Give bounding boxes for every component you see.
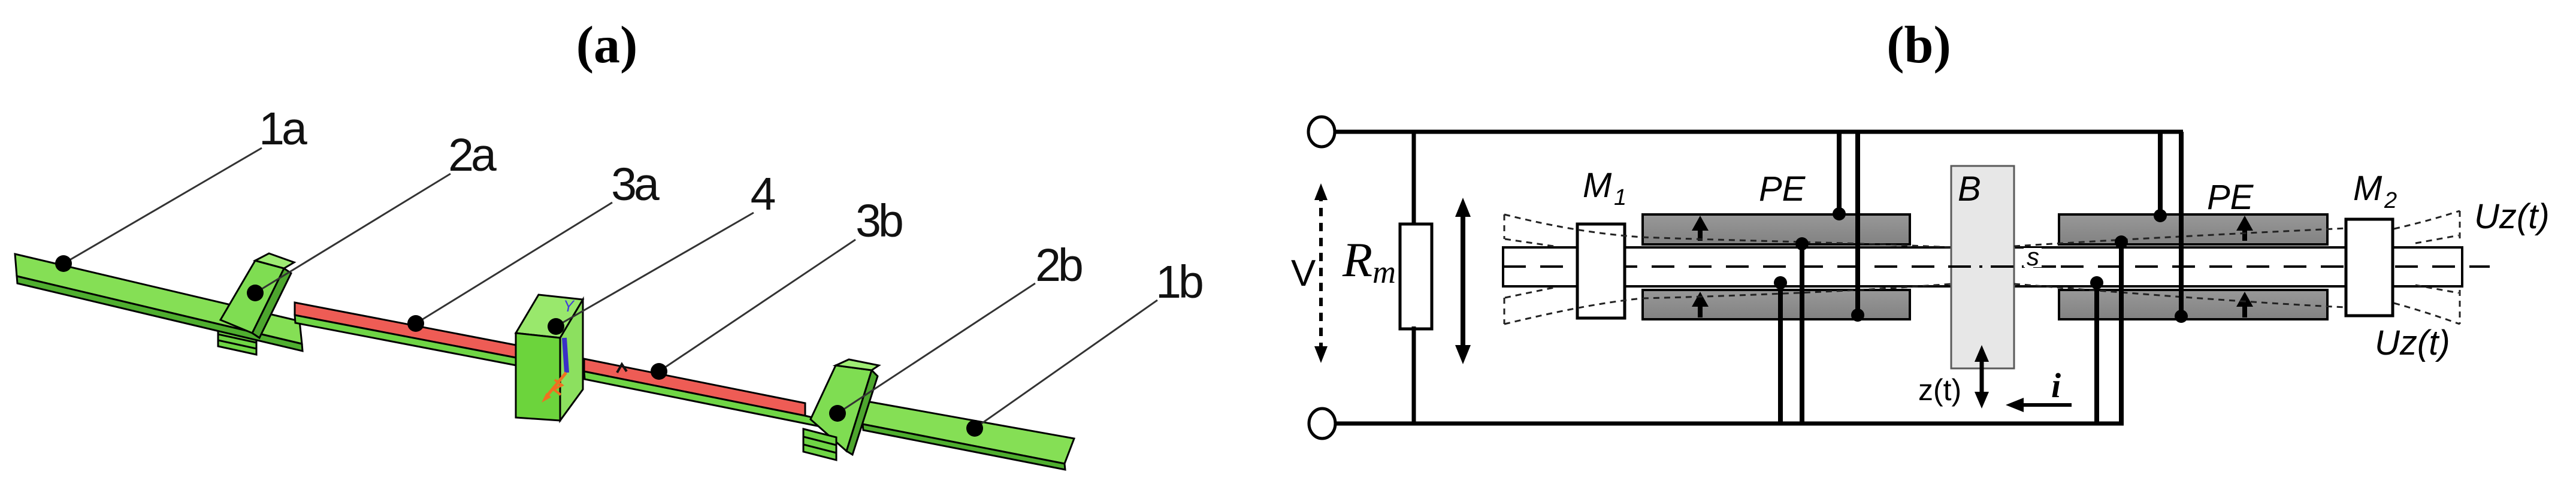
svg-text:PE: PE: [2207, 178, 2254, 217]
envelope lower-left outer: [1504, 298, 1643, 324]
envelope upper-left outer: [1504, 214, 1643, 237]
clamp 2a bar: [220, 253, 294, 338]
leader 1a: [55, 148, 262, 272]
svg-text:Y: Y: [563, 297, 575, 315]
beam 1a top face: [15, 254, 303, 351]
svg-text:3a: 3a: [611, 159, 660, 210]
axis Z (orange): [542, 373, 566, 403]
envelope right tip: [2394, 211, 2460, 324]
wire inner-left b: [1774, 276, 1787, 424]
svg-text:Uz(t): Uz(t): [2375, 323, 2450, 362]
svg-text:1b: 1b: [1156, 256, 1202, 308]
svg-text:4: 4: [751, 168, 776, 220]
label M2: [2353, 169, 2397, 213]
leader 1b: [966, 300, 1157, 437]
label z(t): [1918, 373, 1961, 407]
svg-text:z(t): z(t): [1918, 373, 1961, 407]
piezo strip 3b (red) with substrate: [584, 359, 826, 428]
label 2a: [448, 129, 497, 181]
caption (b): [1886, 16, 1951, 74]
top rail wire: [1336, 130, 2183, 134]
leader 2a: [247, 174, 451, 301]
svg-text:Uz(t): Uz(t): [2474, 197, 2550, 236]
label Rm: [1342, 232, 1396, 290]
envelope lower middle-left: [1643, 284, 1951, 298]
bottom rail wire: [1337, 422, 2124, 426]
PE top-left patch: [1643, 214, 1910, 244]
leader 4: [548, 213, 754, 335]
envelope lower middle-right: [2014, 284, 2346, 307]
leader 3b: [651, 240, 855, 380]
svg-text:m: m: [1372, 254, 1396, 290]
beam centreline dashed: [1503, 265, 2490, 268]
svg-text:3b: 3b: [855, 195, 902, 247]
svg-text:i: i: [2051, 366, 2061, 405]
label PE right: [2207, 178, 2254, 217]
svg-text:(a): (a): [576, 16, 638, 74]
mount M1: [1577, 224, 1625, 318]
label 3a: [611, 159, 660, 210]
resistor Rm: [1400, 224, 1432, 329]
svg-text:1: 1: [1614, 185, 1626, 210]
beam 1b top face: [860, 400, 1074, 470]
mount M2: [2346, 219, 2393, 316]
beam (white strip): [1503, 247, 2462, 286]
wire inner-right b: [2090, 276, 2103, 424]
envelope dashes left tip: [1504, 214, 1505, 324]
PE bottom-left patch: [1643, 290, 1910, 319]
label 4: [751, 168, 776, 220]
axis X marker (black): [617, 364, 627, 373]
svg-text:(b): (b): [1886, 16, 1951, 74]
svg-text:R: R: [1342, 232, 1372, 287]
solid double arrow: [1455, 198, 1471, 364]
label s: [2024, 243, 2042, 271]
svg-text:M: M: [1583, 166, 1612, 205]
axis Y (blue): [563, 297, 575, 373]
svg-text:PE: PE: [1759, 170, 1806, 208]
svg-text:2: 2: [2384, 188, 2397, 213]
PE bottom-right patch: [2059, 290, 2327, 319]
label 1a: [259, 103, 307, 155]
wire resistor to bottom rail: [1412, 326, 1416, 424]
label V: [1291, 253, 1316, 294]
wire inner-left a: [1795, 237, 1809, 424]
envelope lower-left inner: [1505, 288, 1554, 298]
envelope upper middle-right: [2014, 228, 2346, 246]
polarisation arrows left PEs: [1692, 216, 1709, 317]
leader 2b: [829, 283, 1035, 422]
wire outer-right a: [2154, 132, 2167, 222]
svg-text:1a: 1a: [259, 103, 307, 155]
leader 3a: [407, 202, 612, 332]
polarisation arrows right PEs: [2236, 216, 2253, 317]
centreline through B (dash-dot): [1948, 265, 2061, 268]
svg-text:s: s: [2027, 243, 2039, 271]
svg-text:2a: 2a: [448, 129, 497, 181]
centre block 4: [516, 295, 583, 421]
label 2b: [1035, 240, 1082, 291]
envelope upper-left inner: [1505, 239, 1554, 246]
envelope upper middle-left: [1643, 237, 1951, 247]
label 1b: [1156, 256, 1202, 308]
svg-text:M: M: [2353, 169, 2383, 208]
wire rail to resistor: [1412, 132, 1416, 226]
current arrow i: [2006, 398, 2072, 412]
wire outer-left b: [1851, 132, 1864, 322]
wire inner-right a: [2115, 235, 2128, 424]
svg-text:2b: 2b: [1035, 240, 1082, 291]
label Uz(t) bottom: [2375, 323, 2450, 362]
label Uz(t) top: [2474, 197, 2550, 236]
svg-text:B: B: [1958, 170, 1981, 208]
piezo strip 3a (red) with substrate: [295, 303, 516, 365]
label i: [2051, 366, 2061, 405]
clamp 2a base block: [218, 323, 256, 355]
label 3b: [855, 195, 902, 247]
z(t) double arrow: [1975, 345, 1989, 409]
label M1: [1583, 166, 1626, 210]
wire outer-right b: [2175, 132, 2188, 323]
label B: [1958, 170, 1981, 208]
PE top-right patch: [2059, 214, 2327, 244]
caption (a): [576, 16, 638, 74]
svg-text:V: V: [1291, 253, 1316, 294]
mass B: [1951, 166, 2014, 368]
clamp 2b base block: [803, 429, 836, 460]
V dashed arrow: [1314, 183, 1328, 363]
label PE left: [1759, 170, 1806, 208]
wire outer-left a: [1833, 132, 1846, 220]
clamp 2b bar: [811, 359, 879, 455]
terminal top: [1308, 117, 1335, 147]
terminal bottom: [1309, 409, 1335, 438]
